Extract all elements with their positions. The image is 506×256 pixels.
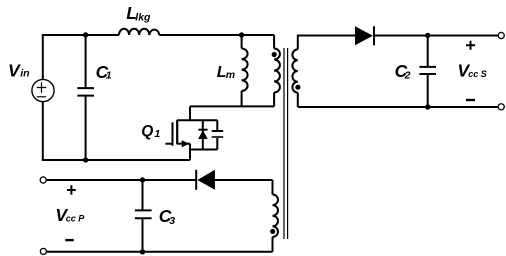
junction dot C2 top — [425, 33, 430, 38]
label C1 — [96, 62, 112, 82]
transformer T1 primary winding — [274, 49, 280, 107]
junction dot C3 bottom — [140, 249, 145, 254]
wire aux top rail (VccP+ to D2) — [47, 179, 197, 181]
wire top rail right (Llkg to T1 primary) — [159, 34, 274, 36]
wire aux bottom rail — [47, 251, 273, 253]
transformer core — [284, 48, 288, 239]
junction dot C3 top — [140, 177, 145, 182]
label Llkg — [126, 3, 151, 23]
wire T1 aux stem top — [272, 180, 274, 195]
svg-text:3: 3 — [169, 215, 175, 227]
inductor Lm — [242, 35, 248, 106]
svg-text:m: m — [226, 69, 235, 81]
wire Vin bottom lead — [42, 102, 44, 160]
wire secondary top rail (D1 to VccS+) — [374, 35, 498, 37]
parasitic capacitor of Q1 — [212, 120, 224, 149]
polarity dot T1 secondary — [295, 85, 300, 90]
wire bottom rail (Vin to Q1 source) — [42, 159, 190, 161]
capacitor C2 — [419, 36, 436, 108]
svg-text:2: 2 — [404, 70, 411, 82]
junction dot C2 bottom — [425, 104, 430, 109]
wire aux top rail right (D2 to T1 aux) — [215, 179, 273, 181]
terminal VccS - — [498, 104, 504, 110]
label VccP — [55, 205, 85, 225]
wire T1 primary stem — [273, 35, 275, 49]
junction dot C1 top — [83, 32, 88, 37]
label Vin — [8, 61, 30, 81]
svg-text:cc P: cc P — [66, 214, 86, 224]
polarity dot T1 auxiliary — [270, 229, 275, 234]
svg-text:1: 1 — [106, 70, 112, 82]
label C2 — [395, 61, 411, 82]
wire Vin top lead — [42, 35, 44, 79]
label Q1 — [141, 123, 160, 140]
wire Q1 drain rail (combo top) — [177, 119, 217, 121]
body diode of Q1 — [198, 120, 208, 149]
plus sign VccP — [67, 185, 76, 194]
svg-text:cc S: cc S — [468, 69, 487, 79]
svg-text:Q: Q — [141, 123, 153, 140]
inductor Llkg — [119, 29, 159, 35]
svg-text:lkg: lkg — [135, 11, 151, 23]
label C3 — [159, 206, 176, 227]
plus sign VccS — [466, 41, 475, 50]
wire Q1 source rail (combo bottom) — [190, 149, 217, 151]
polarity dot T1 primary — [272, 52, 277, 57]
capacitor C1 — [77, 35, 94, 160]
wire Q1 source drop — [189, 144, 191, 160]
label Lm — [217, 64, 235, 81]
terminal VccP + — [40, 177, 46, 183]
wire top rail left (Vin top to Llkg) — [42, 34, 119, 36]
terminal VccS + — [498, 32, 504, 38]
terminal VccP - — [40, 248, 46, 254]
transistor Q1 (MOSFET) — [166, 120, 191, 147]
junction dot Lm top — [239, 32, 244, 37]
wire drain node rail (Lm bottom, T1 primary bottom, Q1 drain) — [190, 105, 274, 107]
minus sign VccP — [65, 239, 73, 241]
voltage source Vin — [32, 79, 54, 101]
capacitor C3 — [135, 180, 152, 252]
transformer T1 secondary winding — [292, 49, 297, 92]
diode D1 (secondary rectifier) — [355, 26, 374, 45]
minus sign VccS — [466, 99, 475, 101]
svg-text:V: V — [8, 61, 21, 81]
svg-text:in: in — [20, 68, 29, 80]
wire secondary bottom rail — [298, 106, 498, 108]
label VccS — [457, 60, 486, 80]
wire drain riser — [189, 106, 191, 120]
wire T1 secondary stem bottom — [297, 93, 299, 107]
junction dot C1 bottom — [83, 157, 88, 162]
diode D2 (aux rectifier, pointing left) — [196, 170, 215, 190]
wire T1 secondary stem top — [298, 36, 355, 50]
transformer T1 auxiliary winding — [273, 195, 279, 237]
wire T1 aux stem bottom — [272, 237, 274, 252]
svg-text:1: 1 — [154, 128, 160, 140]
